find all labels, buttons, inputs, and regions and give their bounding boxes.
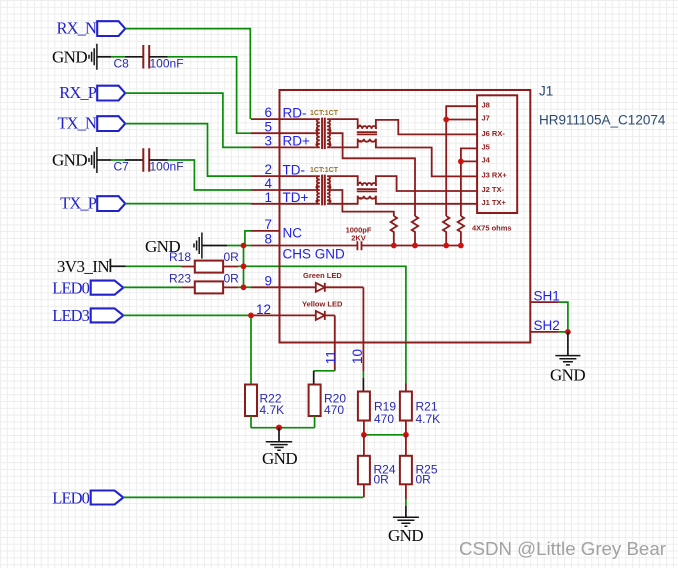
svg-text:R18: R18 <box>169 250 191 264</box>
connector U J1 body <box>280 90 531 343</box>
svg-text:GND: GND <box>550 365 585 384</box>
resistor R24 <box>358 435 396 498</box>
resistor 4x75 no4 <box>458 216 464 246</box>
transformer T-RD right winding <box>327 119 331 147</box>
svg-text:J8: J8 <box>482 100 490 109</box>
transformer T-RD left winding <box>316 119 320 147</box>
svg-text:2: 2 <box>264 162 272 177</box>
svg-text:J7: J7 <box>482 114 490 123</box>
svg-text:LED0: LED0 <box>52 278 89 297</box>
capacitor C8 <box>114 45 184 70</box>
ground earth SH <box>550 332 585 385</box>
transformer T-RD core <box>322 118 325 149</box>
wire vertical bus at x243.5 <box>243 246 245 288</box>
choke L-TD top link <box>331 176 358 186</box>
choke L-RD top winding <box>358 126 376 129</box>
junction rail no3 <box>443 243 449 249</box>
svg-text:2KV: 2KV <box>351 234 366 243</box>
choke L-RD top link <box>331 119 358 129</box>
wire R22 R20 to gnd rail <box>251 416 315 428</box>
wire RD center tap to R 4x75 no2 <box>331 133 415 216</box>
resistor R21 <box>400 384 440 426</box>
wire LED3 to pin12 <box>123 314 251 316</box>
ground GND2 <box>52 147 97 173</box>
port TX_P <box>60 194 125 213</box>
port LED3 <box>52 306 123 325</box>
resistor R20 <box>309 385 347 417</box>
wire TX_N to pin2 <box>125 124 251 177</box>
wire RX_P to pin3 <box>125 93 251 147</box>
svg-text:RX_N: RX_N <box>57 19 97 38</box>
junction R18 node <box>241 263 247 269</box>
resistor R25 <box>400 435 438 500</box>
choke L-RD bottom winding <box>358 139 376 142</box>
svg-text:1: 1 <box>264 190 272 205</box>
svg-text:TX_P: TX_P <box>60 194 97 213</box>
wire C7 to pin4 <box>149 159 167 161</box>
port LED0 bottom <box>52 488 123 507</box>
wire J5 to R 4x75 no4 <box>461 148 477 216</box>
wire GND1 to C8 <box>97 56 111 58</box>
svg-text:J5: J5 <box>482 143 490 152</box>
transformer T-TD leads <box>280 176 316 204</box>
wire CHS GND rail <box>280 245 461 247</box>
transformer T-TD left winding <box>316 176 320 204</box>
transformer T-TD right winding <box>327 176 331 204</box>
choke L-RD core <box>357 132 377 134</box>
svg-text:LED0: LED0 <box>52 488 89 507</box>
svg-text:12: 12 <box>256 302 271 317</box>
ground GND3 mid <box>145 233 202 259</box>
transformer T-TD core <box>322 175 325 206</box>
svg-text:J1 TX+: J1 TX+ <box>482 198 507 207</box>
transformer T-RD winding dots <box>315 129 318 132</box>
svg-text:R23: R23 <box>169 271 191 285</box>
svg-text:RD+: RD+ <box>283 134 310 149</box>
svg-text:J4: J4 <box>482 156 491 165</box>
choke L-RD bottom link <box>331 139 358 148</box>
junction J7 <box>443 117 449 123</box>
junction pin12 node <box>248 313 254 319</box>
svg-text:RX_P: RX_P <box>59 83 96 102</box>
junction pin8 gnd <box>241 243 247 249</box>
svg-text:6: 6 <box>264 105 272 120</box>
choke L-TD bottom winding <box>358 196 376 199</box>
wire elbow to pin7 <box>245 231 251 246</box>
ground GND1 <box>52 44 97 70</box>
svg-text:4.7K: 4.7K <box>416 412 441 426</box>
wire TD center tap to R 4x75 no1 <box>331 190 394 216</box>
wire 3V3_IN to R18 <box>110 265 125 267</box>
LED yellow internal <box>280 300 344 320</box>
wire TD out top to J2 <box>376 176 477 191</box>
svg-text:100nF: 100nF <box>150 160 184 174</box>
svg-text:9: 9 <box>264 273 272 288</box>
svg-text:CHS GND: CHS GND <box>283 246 346 261</box>
svg-text:0R: 0R <box>224 271 240 285</box>
svg-text:J3 RX+: J3 RX+ <box>482 171 508 180</box>
wire J8 to R 4x75 no3 <box>446 106 477 216</box>
wire J7 <box>446 119 477 121</box>
port RX_P <box>59 83 125 102</box>
svg-text:100nF: 100nF <box>150 56 184 70</box>
wire SH1 SH2 tie <box>559 302 568 332</box>
svg-text:8: 8 <box>264 232 272 247</box>
junction gnd rail <box>276 425 282 431</box>
wire TX_P to pin1 <box>125 203 251 205</box>
svg-text:NC: NC <box>283 225 303 240</box>
wire LED0 to R23 <box>123 286 181 288</box>
svg-text:10: 10 <box>350 349 365 364</box>
resistor R18 <box>169 250 239 273</box>
junction R19 bottom <box>361 432 367 438</box>
svg-text:J1: J1 <box>539 84 553 99</box>
transformer T-TD winding dots <box>315 186 318 189</box>
resistor 4x75 no3 <box>443 216 449 246</box>
pin 11 vertical <box>334 315 336 370</box>
capacitor 1000pF 2KV <box>346 226 372 251</box>
wire R23 to pin9 <box>238 286 251 288</box>
svg-text:J6 RX-: J6 RX- <box>482 129 506 138</box>
svg-text:5: 5 <box>264 119 272 134</box>
svg-text:0R: 0R <box>374 473 390 487</box>
port TX_N <box>57 114 125 133</box>
port LED0 <box>52 278 123 297</box>
J1 pin stubs left <box>251 119 280 315</box>
svg-text:4.7K: 4.7K <box>260 403 285 417</box>
junction R23 node <box>241 284 247 290</box>
wire GND3 to pin8 node <box>202 245 227 247</box>
svg-text:C7: C7 <box>114 160 130 174</box>
wire C8 to pin5 <box>149 56 167 58</box>
svg-text:4: 4 <box>264 176 272 191</box>
ground earth R22 <box>262 428 297 468</box>
svg-text:3: 3 <box>264 134 272 149</box>
svg-text:0R: 0R <box>224 250 240 264</box>
resistor R22 <box>245 385 284 417</box>
svg-text:SH1: SH1 <box>534 288 560 303</box>
svg-text:HR911105A_C12074: HR911105A_C12074 <box>539 112 666 127</box>
resistor R19 <box>358 392 396 426</box>
svg-text:LED3: LED3 <box>52 306 89 325</box>
svg-text:C8: C8 <box>114 56 130 70</box>
svg-text:470: 470 <box>374 412 394 426</box>
capacitor C7 <box>114 148 184 173</box>
junction rail no2 <box>412 243 418 249</box>
wire pin12 node down to R22 <box>250 315 252 384</box>
resistor 4x75 no1 <box>391 216 397 246</box>
svg-text:GND: GND <box>52 47 87 66</box>
svg-text:470: 470 <box>324 403 344 417</box>
svg-text:GND: GND <box>388 526 423 545</box>
svg-text:RD-: RD- <box>283 105 307 120</box>
wire TD out bottom to J1 <box>376 196 477 204</box>
wire LED0 bottom to R24 <box>123 496 363 498</box>
wire R25 to gnd <box>405 500 407 506</box>
LED green internal <box>280 271 364 292</box>
svg-text:J2 TX-: J2 TX- <box>482 185 505 194</box>
wire RX_N to pin6 <box>125 29 250 120</box>
svg-text:11: 11 <box>324 350 339 364</box>
svg-text:Yellow LED: Yellow LED <box>302 300 343 309</box>
svg-text:TD+: TD+ <box>283 190 309 205</box>
transformer T-RD leads <box>280 119 316 147</box>
resistor R23 <box>169 271 239 293</box>
junction SH2 <box>565 329 571 335</box>
svg-text:GND: GND <box>262 449 297 468</box>
svg-text:TD-: TD- <box>283 162 306 177</box>
svg-text:4X75 ohms: 4X75 ohms <box>472 224 512 233</box>
svg-text:GND: GND <box>52 151 87 170</box>
junction rail no1 <box>391 243 397 249</box>
junction R21 bottom <box>403 432 409 438</box>
wire J4 <box>461 160 477 162</box>
pin 10 vertical <box>362 287 364 371</box>
svg-text:CSDN @Little Grey Bear: CSDN @Little Grey Bear <box>459 538 666 559</box>
junction J4 <box>458 159 464 165</box>
wire GND2 to C7 <box>97 159 111 161</box>
choke L-TD core <box>357 189 377 191</box>
ground earth R25 <box>388 506 423 545</box>
resistor 4x75 no2 <box>412 216 418 246</box>
svg-text:1CT:1CT: 1CT:1CT <box>310 110 339 117</box>
wire R19 R21 bottoms <box>364 421 406 435</box>
net label 3V3_IN <box>57 257 111 276</box>
inner RJ45 box <box>477 95 517 213</box>
choke L-TD bottom link <box>331 196 358 204</box>
svg-text:Green LED: Green LED <box>303 271 342 280</box>
svg-text:7: 7 <box>264 217 272 232</box>
svg-text:1CT:1CT: 1CT:1CT <box>310 167 339 174</box>
wire pin10 to R19 <box>362 371 364 378</box>
svg-text:SH2: SH2 <box>534 318 560 333</box>
svg-text:3V3_IN: 3V3_IN <box>57 257 109 276</box>
svg-text:0R: 0R <box>416 473 432 487</box>
port RX_N <box>57 19 126 38</box>
wire pin11 to R20 <box>314 370 335 372</box>
wire RD out top to J6 <box>376 120 477 134</box>
wire R18 to node <box>238 265 243 267</box>
wire RD out bottom to J3 <box>376 139 477 177</box>
svg-text:TX_N: TX_N <box>57 114 97 133</box>
wire 3V3 net across to R21 <box>244 266 406 383</box>
choke L-TD top winding <box>358 183 376 186</box>
junction rail no4 <box>458 243 464 249</box>
